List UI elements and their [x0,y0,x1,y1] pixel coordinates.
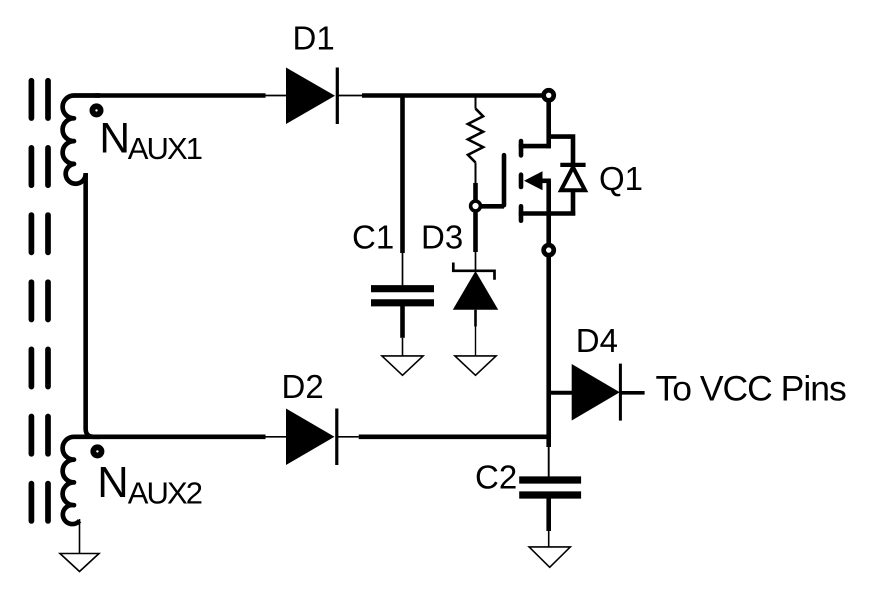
ground below NAUX2 [60,554,99,572]
pin C1 to ground [402,338,404,357]
transformer core dashed line right [45,81,51,521]
resistor R (gate pull-up) [468,109,483,163]
svg-text:D3: D3 [421,219,463,256]
wire: source down to bottom node [546,214,551,245]
wire: NAUX2 pin to ground [79,519,81,555]
diode D2 [286,409,335,466]
pin D2 anode [266,436,288,438]
capacitor C1 [371,285,434,292]
winding NAUX2 [63,437,100,524]
polarity dot NAUX1 [92,106,100,114]
pin D1 cathode [337,95,362,97]
wire: resistor branch from top rail [475,96,477,109]
Q1 body diode cathode bar [560,163,585,167]
wire: D3 anode stub [474,310,477,327]
svg-text:N: N [97,459,128,507]
pin D3 to ground [475,327,477,357]
winding NAUX1 [63,96,100,184]
zener diode D3 [453,263,494,280]
pin D2 cathode [337,436,359,438]
diode D1 [286,68,335,125]
wire: C2 bottom lead [546,498,551,531]
svg-text:C2: C2 [475,459,517,496]
wire: D2 to main vertical [359,434,549,439]
wire: body to source [546,181,551,214]
transformer core dashed line left [29,81,35,521]
svg-text:AUX2: AUX2 [128,476,202,511]
wire: NAUX1 bottom down to corner, right to D2 [86,173,266,437]
node: top terminal circle [544,90,554,100]
wire: source lead [519,211,575,216]
svg-text:Q1: Q1 [599,160,643,197]
wire: body diode anode down [571,190,576,215]
Q1 body arrow [524,171,543,190]
svg-text:To VCC Pins: To VCC Pins [656,369,846,409]
node: source terminal circle [544,245,554,255]
svg-text:C1: C1 [352,219,394,256]
wire: gate lead to Q1 [481,204,504,209]
ground below C2 [529,547,570,567]
pin D1 anode [266,95,288,97]
Q1 channel bottom bar [519,206,524,220]
capacitor C2 [519,476,581,483]
svg-text:AUX1: AUX1 [128,131,202,166]
Q1 gate bar [502,155,507,205]
node: gate node circle [471,201,481,211]
wire: top rail from winding to D1 [95,93,266,98]
wire: main vertical below source node [546,256,551,447]
Q1 channel top bar [519,141,524,155]
pin D3 top [475,252,477,271]
wire: C1 branch [400,96,405,254]
svg-text:D2: D2 [282,368,324,405]
pin D4 cathode [620,391,644,395]
wire: D4 branch [549,391,573,395]
ground below D3 [455,356,496,375]
pin C1 top [402,253,404,286]
polarity dot NAUX2 [93,447,101,455]
wire: drain vertical from top node [546,101,551,148]
pin C2 top [548,447,550,477]
wire: node to D3 [473,212,478,252]
svg-text:D4: D4 [576,322,618,359]
wire: C1 bottom lead [400,306,405,338]
Q1 channel middle bar [519,175,524,187]
svg-text:D1: D1 [293,20,335,57]
Q1 body diode triangle [561,167,585,190]
diode D4 [572,364,620,421]
ground below C1 [382,356,423,375]
wire: D1 to top node [362,93,544,98]
wire: resistor bottom lead [475,163,477,184]
pin C2 to ground [548,531,550,548]
wire: body-diode branch top [547,137,574,164]
wire: drain lead to Q1 top bar [519,144,551,149]
svg-text:N: N [99,115,130,162]
